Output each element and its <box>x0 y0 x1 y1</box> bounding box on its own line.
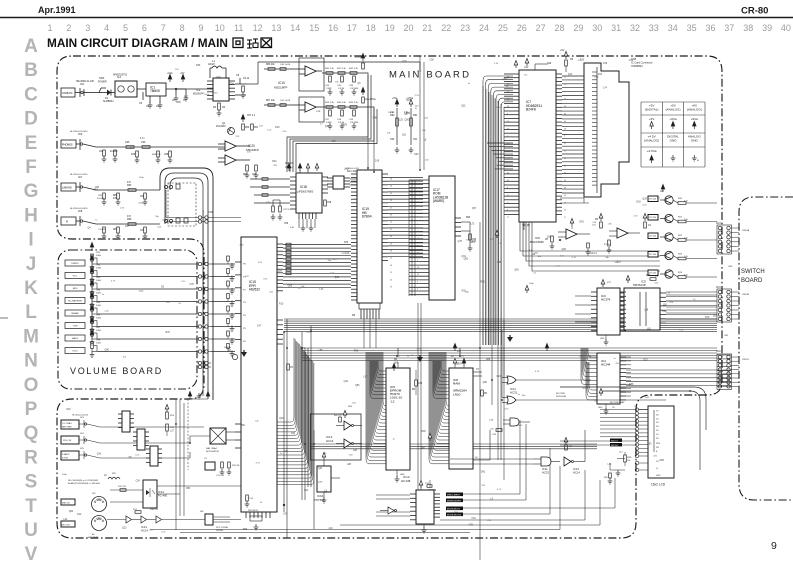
svg-text:Q90: Q90 <box>483 382 488 384</box>
svg-text:CN10C: CN10C <box>742 359 750 361</box>
svg-text:20: 20 <box>417 274 419 276</box>
series connector P1 <box>122 411 130 432</box>
svg-text:R73: R73 <box>705 317 710 319</box>
svg-text:Q84: Q84 <box>69 511 74 513</box>
svg-text:R45 3.3k: R45 3.3k <box>349 102 359 104</box>
bottom left vertical cables <box>176 399 184 530</box>
svg-text:23: 23 <box>564 202 566 204</box>
svg-text:25: 25 <box>498 23 508 33</box>
svg-text:20: 20 <box>564 180 566 182</box>
svg-text:R15 220: R15 220 <box>118 486 127 488</box>
svg-text:R44 3.3k: R44 3.3k <box>337 102 347 104</box>
svg-text:STOP: STOP <box>62 457 68 459</box>
svg-text:J: J <box>26 254 37 275</box>
op-amp IC6 A <box>566 229 577 239</box>
svg-text:5.1k: 5.1k <box>684 201 688 203</box>
highlight labels MRD MWR <box>446 493 463 497</box>
svg-text:+5V: +5V <box>649 117 656 121</box>
svg-text:R32: R32 <box>462 290 467 292</box>
long bottom bus wires <box>150 466 600 533</box>
svg-text:C90: C90 <box>430 59 435 61</box>
IC IC16 PST529 <box>317 466 331 492</box>
svg-text:58: 58 <box>564 128 566 130</box>
svg-text:Apr.1991: Apr.1991 <box>38 5 76 15</box>
svg-text:R12: R12 <box>130 148 135 150</box>
svg-text:27: 27 <box>390 207 392 209</box>
svg-text:HEC3800-01-030: HEC3800-01-030 <box>76 81 95 83</box>
svg-text:25: 25 <box>417 202 419 204</box>
svg-text:FILL: FILL <box>73 276 78 278</box>
svg-text:CR-80: CR-80 <box>741 6 768 17</box>
svg-text:10: 10 <box>507 121 509 123</box>
svg-text:9: 9 <box>771 540 777 552</box>
bus: IC7 left fan to vertical trunk <box>483 76 513 345</box>
svg-text:25: 25 <box>507 173 509 175</box>
svg-text:G: G <box>24 181 39 202</box>
svg-text:D96: D96 <box>196 65 201 67</box>
svg-text:HB/522: HB/522 <box>249 288 260 292</box>
power legend table <box>641 102 705 167</box>
svg-text:Q32: Q32 <box>402 61 407 63</box>
svg-text:O: O <box>24 375 39 396</box>
IC12 top marks <box>419 481 423 489</box>
svg-text:10kB: 10kB <box>96 318 101 320</box>
inverter gate near IC12 <box>388 507 394 514</box>
svg-text:CN10A: CN10A <box>742 229 750 232</box>
svg-text:17: 17 <box>347 23 357 33</box>
svg-text:GND: GND <box>600 338 605 340</box>
IC4 right pins <box>620 357 626 400</box>
svg-text:34: 34 <box>417 181 419 183</box>
svg-text:DTC144: DTC144 <box>649 254 656 256</box>
gate IC11 OR B <box>507 396 516 404</box>
svg-text:5.1k: 5.1k <box>684 275 688 277</box>
svg-text:M5291FP: M5291FP <box>193 93 204 96</box>
svg-text:D33: D33 <box>617 262 622 264</box>
connector START STOP <box>61 451 79 460</box>
svg-text:C36: C36 <box>629 60 634 62</box>
wire bus to LCD curl <box>600 391 700 470</box>
cable sheath dashed <box>168 183 196 226</box>
svg-text:HC-HAT/RIDE: HC-HAT/RIDE <box>68 300 82 303</box>
IC7 left pins <box>504 74 519 215</box>
card connector bottom wires <box>560 198 589 203</box>
svg-text:10kB: 10kB <box>96 268 101 270</box>
svg-text:100p: 100p <box>138 203 144 205</box>
svg-text:RA2 CRA4: RA2 CRA4 <box>206 447 217 450</box>
svg-text:N: N <box>24 351 38 372</box>
svg-text:D19: D19 <box>375 160 380 162</box>
LCD module 16x2 <box>648 406 674 478</box>
svg-text:IC Card Connector: IC Card Connector <box>631 61 653 65</box>
svg-text:GND: GND <box>670 139 678 143</box>
connector CN5A to switch board <box>717 225 732 254</box>
connector PHONES jack <box>61 140 76 148</box>
svg-text:GND: GND <box>691 139 699 143</box>
cable loop outer <box>160 168 213 400</box>
svg-text:HLJ1501-01-0010: HLJ1501-01-0010 <box>70 208 88 210</box>
svg-text:1: 1 <box>47 23 52 33</box>
svg-text:K: K <box>24 278 38 299</box>
gate IC11 OR A <box>507 376 516 384</box>
bus: address bus C <box>310 444 597 449</box>
svg-text:D36: D36 <box>344 242 349 244</box>
svg-text:S: S <box>25 472 38 493</box>
svg-text:C91: C91 <box>413 139 418 141</box>
IC5 top parts <box>626 276 630 284</box>
gate IC11 AND C <box>541 457 551 466</box>
MIDI OUT drivers <box>126 516 132 523</box>
bus: bus B to switch connector <box>717 355 731 386</box>
svg-text:MIDI: MIDI <box>73 288 78 290</box>
svg-text:D89: D89 <box>240 425 245 427</box>
gate IC13 inverter A <box>344 421 351 430</box>
svg-text:5.1k: 5.1k <box>684 219 688 221</box>
svg-text:10kB: 10kB <box>96 255 101 257</box>
svg-text:Q14: Q14 <box>568 74 573 76</box>
svg-text:14: 14 <box>507 195 509 197</box>
svg-text:16: 16 <box>328 23 338 33</box>
svg-text:R97: R97 <box>407 100 412 102</box>
svg-text:38: 38 <box>390 265 392 267</box>
svg-text:DTC144: DTC144 <box>649 217 656 219</box>
svg-text:18: 18 <box>366 23 376 33</box>
IC8 left pin fan upper <box>441 361 449 371</box>
svg-text:R82: R82 <box>127 184 132 187</box>
IC IC7 H8 CPU <box>519 70 556 222</box>
IC IC19 HB 87B04 <box>357 170 382 303</box>
svg-text:T: T <box>25 496 37 517</box>
svg-text:RF-CHOKE(W) or L3 220ROHM: RF-CHOKE(W) or L3 220ROHM <box>68 479 98 482</box>
transistor Q4 driver <box>665 233 673 241</box>
svg-text:JK8: JK8 <box>78 210 83 213</box>
inductor L1 <box>212 66 222 68</box>
svg-text:D-1000: D-1000 <box>97 198 105 200</box>
op-amp IC20 M5218FP A <box>225 141 236 151</box>
connector CN5C to switch board <box>717 354 732 389</box>
grid column numbers 1-40 <box>47 23 790 33</box>
svg-text:POWER: POWER <box>98 82 107 84</box>
IC8 left pin fan lower <box>446 352 449 406</box>
IC8 top arrows <box>453 359 457 367</box>
IC18 power arrows <box>298 164 302 172</box>
svg-text:19: 19 <box>385 23 395 33</box>
IC17 right components <box>455 218 461 236</box>
IC IC5 M54513P <box>624 288 660 330</box>
svg-text:8: 8 <box>564 136 565 138</box>
svg-text:C40 1u/16: C40 1u/16 <box>280 64 291 66</box>
resistor R2 below IC2 <box>218 103 221 110</box>
choke L3 <box>108 477 120 479</box>
svg-text:24: 24 <box>479 23 489 33</box>
svg-text:Q31: Q31 <box>547 237 552 239</box>
op-amp IC10 M5218FP A <box>299 58 324 91</box>
gate cluster D <box>510 418 519 426</box>
op-amp IC6 B <box>617 228 628 238</box>
svg-text:C85: C85 <box>497 262 502 264</box>
svg-text:44: 44 <box>564 195 566 197</box>
svg-text:9: 9 <box>564 91 565 93</box>
svg-text:[ANALOG]: [ANALOG] <box>644 139 659 143</box>
svg-text:1/50P: 1/50P <box>326 122 332 124</box>
svg-text:A: A <box>24 36 38 57</box>
svg-text:LN10: LN10 <box>453 392 461 396</box>
svg-text:58: 58 <box>564 188 566 190</box>
svg-text:Q: Q <box>24 423 39 444</box>
svg-text:C58: C58 <box>327 202 332 204</box>
transistor Q5 driver <box>665 251 673 259</box>
svg-text:R: R <box>66 221 68 224</box>
crystal circuit X1 <box>205 462 215 470</box>
svg-text:1/3.30: 1/3.30 <box>338 88 345 90</box>
svg-text:[WARE]: [WARE] <box>433 199 444 203</box>
svg-text:H: H <box>24 205 38 226</box>
modulator T1 <box>210 428 226 444</box>
svg-text:D91: D91 <box>481 472 486 474</box>
caps right of IC2 <box>235 78 246 95</box>
IC9 IC8 power drops <box>397 348 399 356</box>
svg-text:R91: R91 <box>413 114 418 117</box>
connector DCB IN <box>61 88 75 97</box>
svg-text:R78: R78 <box>165 332 170 334</box>
svg-text:8: 8 <box>507 188 508 190</box>
wires ribbon to IC15 with RC <box>211 263 235 265</box>
svg-text:GND: GND <box>598 407 603 409</box>
svg-text:10kB: 10kB <box>96 330 101 332</box>
IC4 bottom gnd <box>605 404 607 409</box>
IC8 right wires <box>473 372 490 460</box>
IC IC18 uPD63768S <box>296 173 322 213</box>
bus: data/address lines IC19 to IC17 <box>388 178 423 257</box>
vertical trunk mid <box>368 56 424 172</box>
svg-text:9: 9 <box>417 281 418 283</box>
IC3 top arrow <box>601 280 605 288</box>
svg-text:4: 4 <box>104 23 109 33</box>
svg-text:Q53: Q53 <box>279 418 284 420</box>
svg-text:C67 0.1: C67 0.1 <box>247 115 256 117</box>
component value annotations <box>62 59 718 533</box>
svg-text:D51: D51 <box>713 316 718 318</box>
svg-text:HC138: HC138 <box>401 479 411 483</box>
bus: stair lines to driver transistors <box>520 222 660 251</box>
jack JK1 power <box>75 92 80 94</box>
svg-text:20: 20 <box>564 84 566 86</box>
svg-text:SLMBD04: SLMBD04 <box>103 101 114 103</box>
svg-text:58: 58 <box>564 165 566 167</box>
lower gate support <box>565 445 568 450</box>
switch board outline <box>739 197 793 500</box>
svg-text:D: D <box>24 109 38 130</box>
pin number annotations <box>390 77 566 291</box>
svg-text:23: 23 <box>390 272 392 274</box>
svg-text:M: M <box>23 326 39 347</box>
LCD wires from bus <box>600 409 635 411</box>
svg-text:HC14: HC14 <box>573 471 580 475</box>
svg-text:HC244: HC244 <box>601 362 611 366</box>
svg-text:46: 46 <box>564 114 566 116</box>
IC4 left fan lower <box>589 362 597 390</box>
IC18 right pins <box>322 177 328 193</box>
svg-text:MCS0-MCS7: MCS0-MCS7 <box>447 509 461 511</box>
R jack RC network <box>96 223 160 225</box>
svg-text:26: 26 <box>390 279 392 281</box>
svg-text:32: 32 <box>630 23 640 33</box>
svg-text:100p: 100p <box>216 76 222 78</box>
svg-text:SW1: SW1 <box>99 76 105 80</box>
svg-text:C84: C84 <box>140 230 145 232</box>
pullup resistors RA3 <box>166 412 169 419</box>
IC15 bottom pins <box>246 512 270 518</box>
svg-text:R51: R51 <box>186 488 191 490</box>
svg-text:JK7: JK7 <box>78 176 83 179</box>
svg-text:D54: D54 <box>230 83 235 85</box>
svg-text:10kB: 10kB <box>96 280 101 282</box>
IC13 gate wires <box>336 426 362 444</box>
svg-text:WR DO: WR DO <box>611 445 619 447</box>
svg-text:MAIN CIRCUIT DIAGRAM / MAIN: MAIN CIRCUIT DIAGRAM / MAIN <box>47 36 228 50</box>
svg-text:L: L <box>25 302 37 323</box>
svg-text:VOLUME BOARD: VOLUME BOARD <box>70 366 163 376</box>
svg-text:19: 19 <box>390 243 392 245</box>
svg-text:C40: C40 <box>291 433 296 435</box>
IC9 left pin fan lower <box>383 352 386 406</box>
svg-text:6: 6 <box>507 210 508 212</box>
svg-text:Q99: Q99 <box>562 249 567 251</box>
svg-text:Q87: Q87 <box>421 448 426 450</box>
svg-text:100p: 100p <box>417 70 423 72</box>
label CN6 <box>631 57 653 68</box>
svg-text:U: U <box>24 520 38 541</box>
svg-text:MAIN BOARD: MAIN BOARD <box>389 70 471 81</box>
svg-text:BASS: BASS <box>72 337 78 340</box>
svg-text:28: 28 <box>554 23 564 33</box>
IC12 left pins <box>410 494 416 520</box>
svg-text:70096894: 70096894 <box>631 64 643 68</box>
svg-text:CN3: CN3 <box>716 287 721 289</box>
power arrows sprinkle <box>287 164 291 172</box>
svg-text:1/50P: 1/50P <box>326 88 332 90</box>
svg-text:48: 48 <box>507 143 509 145</box>
svg-text:7: 7 <box>417 231 418 233</box>
svg-text:40: 40 <box>564 121 566 123</box>
vertical trunk right of IC15 <box>284 319 314 538</box>
svg-text:R-1000: R-1000 <box>110 151 118 153</box>
svg-text:36: 36 <box>564 106 566 108</box>
svg-text:16x2 LCD: 16x2 LCD <box>651 483 666 487</box>
svg-text:10: 10 <box>215 23 225 33</box>
cable loop inner <box>170 178 203 396</box>
svg-text:R50: R50 <box>245 127 250 129</box>
volume slider VR3 MIDI <box>65 285 85 291</box>
left margin tick <box>0 317 8 319</box>
svg-text:11: 11 <box>507 202 509 204</box>
svg-text:Q14: Q14 <box>325 126 330 128</box>
svg-text:C9-1k: C9-1k <box>243 78 250 80</box>
connector volume ribbon CN4 <box>198 216 201 219</box>
svg-text:100p: 100p <box>62 474 68 476</box>
svg-text:JK6: JK6 <box>78 133 83 136</box>
svg-text:100p: 100p <box>139 177 145 179</box>
svg-text:START/: START/ <box>62 453 70 456</box>
svg-text:CN4: CN4 <box>728 266 733 268</box>
svg-text:R90: R90 <box>390 114 395 117</box>
svg-text:V: V <box>25 544 38 560</box>
svg-text:C65: C65 <box>125 141 130 144</box>
svg-text:41: 41 <box>507 84 509 86</box>
svg-text:31: 31 <box>611 23 621 33</box>
IC18 bottom components <box>299 219 315 228</box>
svg-text:Q23: Q23 <box>643 360 648 362</box>
jack wires to modulator <box>100 427 210 458</box>
volume slider VR7 BASS <box>65 335 85 341</box>
bus: main horizontal bus B <box>302 348 717 361</box>
svg-text:10kB: 10kB <box>96 305 101 307</box>
IC15 right pins upper <box>277 244 283 291</box>
svg-text:B24F8: B24F8 <box>526 108 536 112</box>
IC4 right wires to LCD connector <box>626 356 631 358</box>
svg-text:R56: R56 <box>176 102 181 104</box>
svg-text:20: 20 <box>403 23 413 33</box>
cable loop mid <box>165 173 208 398</box>
IC15 left pins lower <box>235 424 241 448</box>
svg-text:100p: 100p <box>529 283 535 285</box>
svg-text:+5V: +5V <box>560 49 565 52</box>
IC IC3 HC374 <box>597 288 620 335</box>
svg-text:34: 34 <box>668 23 678 33</box>
svg-text:D12: D12 <box>77 514 82 516</box>
svg-text:C36: C36 <box>603 63 608 65</box>
svg-text:D89: D89 <box>486 359 491 361</box>
svg-text:13: 13 <box>271 23 281 33</box>
svg-text:12: 12 <box>253 23 263 33</box>
svg-text:11: 11 <box>417 188 419 190</box>
connector TO CRA4 RHYTHM <box>61 420 79 429</box>
IC IC17 ROM <box>429 176 455 300</box>
svg-text:MCS8-MCS15: MCS8-MCS15 <box>447 515 462 517</box>
svg-text:29: 29 <box>573 23 583 33</box>
svg-text:R/W: R/W <box>656 443 660 445</box>
svg-text:RV PWB 28A4: RV PWB 28A4 <box>610 401 625 404</box>
transistor Q1 2SC2603 <box>228 128 235 135</box>
loop junction squares <box>176 218 180 223</box>
svg-text:5: 5 <box>123 23 128 33</box>
svg-text:42: 42 <box>564 173 566 175</box>
svg-text:R80: R80 <box>113 195 118 197</box>
svg-text:C: C <box>24 84 38 105</box>
svg-text:23: 23 <box>460 23 470 33</box>
diode D2 node <box>232 130 234 132</box>
regulator IC1 78M05 <box>146 83 166 96</box>
IC4 left fan upper <box>588 348 597 357</box>
junction node +9V <box>175 88 177 90</box>
gate IC13 inverter B <box>344 439 351 448</box>
svg-text:R66 20k: R66 20k <box>266 64 275 66</box>
svg-text:R: R <box>24 447 38 468</box>
svg-text:R93: R93 <box>466 217 471 219</box>
svg-text:Q83: Q83 <box>288 285 293 287</box>
IC9 bottom pin <box>396 470 398 477</box>
svg-text:RA1 10k4: RA1 10k4 <box>347 170 358 173</box>
svg-text:57: 57 <box>507 91 509 93</box>
svg-text:TO CRA4: TO CRA4 <box>62 422 72 425</box>
svg-text:R42: R42 <box>304 490 309 492</box>
svg-text:HLJ1501-01-0010: HLJ1501-01-0010 <box>72 415 89 417</box>
main board outline <box>57 56 722 538</box>
svg-text:2: 2 <box>66 23 71 33</box>
svg-text:6: 6 <box>142 23 147 33</box>
diode D1 <box>107 90 111 96</box>
svg-text:2SC2603: 2SC2603 <box>216 126 226 128</box>
